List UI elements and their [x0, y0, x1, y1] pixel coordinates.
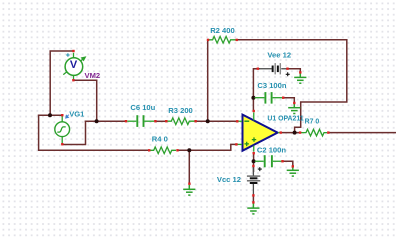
- ground below Vcc battery: [247, 203, 259, 214]
- node junction output feedback: [293, 131, 297, 135]
- svg-text:R2 400: R2 400: [210, 26, 235, 35]
- wire C3 node to op-amp top supply: [252, 98, 254, 111]
- wire VG1 bottom jog up to input line: [62, 121, 85, 144]
- wire Vee right to ground: [287, 69, 301, 73]
- wire R4 node ground drop: [188, 150, 190, 183]
- svg-text:U1 OPA211: U1 OPA211: [267, 116, 303, 123]
- node junction input line: [95, 119, 99, 123]
- wire VM2 bottom loop: [73, 80, 96, 121]
- node junction R4 ground: [187, 148, 191, 152]
- wire C3 right to ground: [284, 98, 295, 102]
- node junction VM2/VG1 top: [48, 113, 52, 117]
- node junction R2 left / inverting input: [206, 119, 210, 123]
- battery Vcc 12: [247, 165, 262, 197]
- svg-text:V: V: [70, 59, 78, 71]
- wire left drop and bottom run to R4: [39, 115, 149, 150]
- wire Vcc battery bottom to ground: [252, 196, 254, 203]
- svg-text:C3 100n: C3 100n: [257, 81, 286, 90]
- svg-text:R4 0: R4 0: [152, 135, 168, 144]
- op-amp U1: [235, 110, 282, 155]
- svg-text:Vcc 12: Vcc 12: [217, 175, 241, 184]
- svg-text:R7 0: R7 0: [305, 118, 320, 125]
- capacitor C2: [255, 155, 282, 167]
- ground below Vee right: [294, 73, 306, 83]
- wire R2 right feedback loop: [237, 40, 347, 133]
- node junction C3 supply: [251, 96, 255, 100]
- node junction C2 supply: [252, 159, 256, 163]
- resistor R7: [300, 129, 327, 136]
- voltmeter VM2: [63, 50, 86, 82]
- wire VM2 top loop: [50, 51, 73, 115]
- svg-text:Vee 12: Vee 12: [267, 51, 291, 60]
- ground below C2 right: [287, 167, 299, 176]
- wire VG1 top: [39, 114, 62, 116]
- resistor R2: [208, 37, 235, 44]
- wire C6 to R3: [156, 120, 166, 122]
- capacitor C6: [127, 115, 154, 127]
- wire op-amp output: [281, 132, 300, 134]
- svg-text:C6 10u: C6 10u: [130, 103, 155, 112]
- svg-text:VM2: VM2: [85, 71, 101, 80]
- wire R7 to right edge: [328, 132, 396, 134]
- wire Vee left vertical to C3 node: [253, 69, 259, 98]
- wire R3 to op-amp inverting input: [196, 120, 237, 122]
- label VG1 with + marker: [66, 115, 69, 118]
- capacitor C3: [255, 92, 283, 104]
- svg-text:C2 100n: C2 100n: [257, 145, 286, 154]
- resistor R4: [149, 147, 176, 154]
- svg-text:R3 200: R3 200: [168, 106, 193, 115]
- voltage generator VG1: [55, 114, 70, 145]
- wire C2 right to ground: [283, 161, 293, 166]
- resistor R3: [167, 118, 195, 125]
- wire R2 left vertical: [207, 40, 209, 121]
- svg-text:VG1: VG1: [69, 110, 85, 119]
- wire input line to C6: [86, 120, 126, 122]
- wire C2 node down to Vcc battery: [253, 161, 255, 171]
- wire op-amp bottom supply to C2 node: [253, 153, 255, 162]
- ground below C3 right: [288, 104, 300, 114]
- battery Vee 12: [257, 63, 290, 76]
- wire R4 to op-amp noninverting input: [178, 144, 236, 150]
- ground below R4 node: [183, 185, 195, 195]
